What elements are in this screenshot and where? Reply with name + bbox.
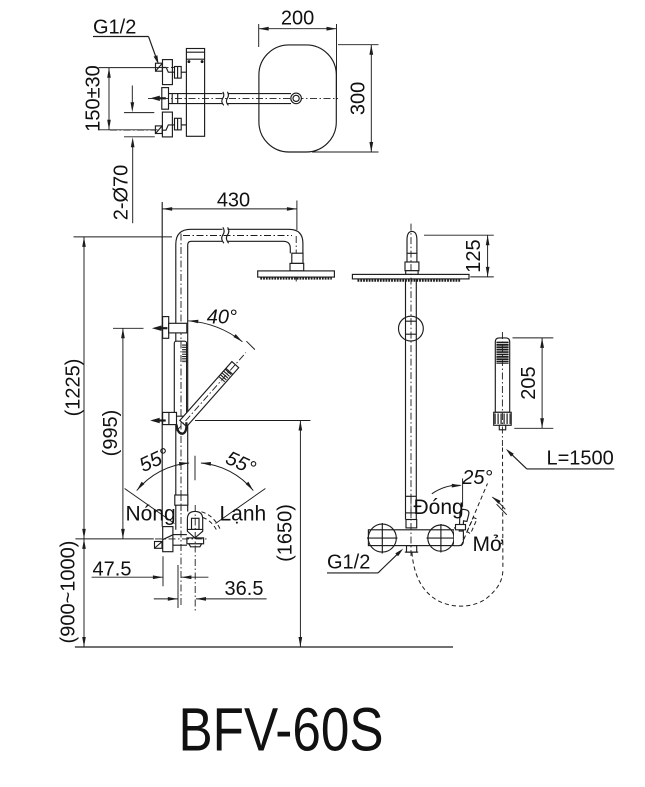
svg-text:L=1500: L=1500 <box>547 448 614 470</box>
label 40 degrees <box>207 307 237 329</box>
centerline overlays <box>181 342 411 557</box>
svg-text:200: 200 <box>281 8 314 30</box>
upper inlet centerline <box>99 67 175 69</box>
wall reference line <box>161 202 163 527</box>
arm centerline with direction arrow <box>148 96 338 101</box>
svg-text:(1650): (1650) <box>275 504 297 562</box>
dimension 1225 <box>63 237 173 539</box>
faucet body front view <box>368 530 454 546</box>
top arm stub front view <box>407 231 417 262</box>
riser column and top arm tube <box>176 229 303 530</box>
svg-text:300: 300 <box>347 82 369 115</box>
svg-text:36.5: 36.5 <box>225 578 264 600</box>
dimension 150±30 <box>83 65 158 132</box>
shower arm flange top view <box>162 88 169 110</box>
right 55 degree arc <box>201 462 266 524</box>
lower inlet centerline <box>110 129 155 131</box>
svg-text:430: 430 <box>217 190 250 212</box>
lower wall union square G1/2 thread <box>155 126 162 134</box>
label 55 degrees left <box>136 444 173 477</box>
title BFV-60S <box>179 696 384 764</box>
pipe nut above faucet <box>175 495 188 505</box>
lever handle closed <box>456 509 469 531</box>
svg-text:Lạnh: Lạnh <box>220 503 267 526</box>
riser pipe front view <box>406 279 417 520</box>
shower hose dashed <box>412 448 503 607</box>
ball joint at arm end <box>291 93 302 104</box>
overhead shower head front view <box>352 274 469 280</box>
overhead shower head top view oval <box>259 45 336 152</box>
label Mo open <box>473 533 504 556</box>
25 degree arrow to open axis <box>492 497 507 515</box>
label G1/2 top view with leader arrow <box>93 17 159 65</box>
hand shower tilted 40 degrees <box>177 353 246 431</box>
wall fixing arrow upper bracket <box>152 326 168 331</box>
valve body top view <box>186 49 204 137</box>
faucet centerline <box>155 538 207 540</box>
svg-text:25°: 25° <box>461 467 492 489</box>
svg-text:(1225): (1225) <box>63 359 85 417</box>
svg-text:G1/2: G1/2 <box>327 552 370 574</box>
pipe nut above faucet body <box>406 520 417 528</box>
lower connection nut <box>172 118 186 130</box>
diverter knob side view <box>187 511 202 529</box>
label Dong close <box>414 496 464 519</box>
slide ring on pipe <box>399 316 424 341</box>
label 25 degrees <box>461 467 492 489</box>
svg-text:BFV-60S: BFV-60S <box>179 696 384 764</box>
hand shower front view <box>494 332 512 446</box>
faucet wall escutcheon side view <box>163 527 187 552</box>
tube break symbol <box>222 227 229 243</box>
column centerline <box>181 234 296 606</box>
diverter V mark <box>187 529 202 538</box>
svg-text:205: 205 <box>518 366 540 399</box>
dimension 430 <box>162 190 297 231</box>
faucet wall square G1/2 <box>155 542 163 549</box>
upper connection nut <box>172 67 186 79</box>
dimension 900-1000 <box>58 539 86 647</box>
dimension 995 <box>100 328 144 539</box>
arm break symbol <box>222 92 229 106</box>
left 55 degree arc <box>125 462 190 524</box>
dimension 47.5 <box>92 559 209 581</box>
label L=1500 <box>506 448 614 470</box>
svg-text:125: 125 <box>463 239 485 272</box>
floor line <box>75 646 453 648</box>
upper eccentric escutcheon <box>163 60 173 85</box>
wall fixing arrow holder <box>150 418 166 423</box>
svg-text:2-Ø70: 2-Ø70 <box>111 165 133 221</box>
right view centerline <box>410 224 412 530</box>
dimension 300 <box>312 45 379 152</box>
dimension 205 <box>513 338 554 428</box>
extension lines bottom dims <box>163 556 178 608</box>
lever handle open dashed <box>461 484 488 547</box>
head connector pieces <box>290 253 304 271</box>
hand shower docked on column <box>174 341 186 416</box>
label G1/2 faucet inlet <box>327 549 403 574</box>
faucet center extension line <box>75 538 153 540</box>
stub base <box>406 271 418 275</box>
adjust range upper tick with down arrow <box>124 86 154 113</box>
left mounting flange <box>367 523 398 554</box>
svg-text:Đóng: Đóng <box>414 496 464 519</box>
svg-text:(900~1000): (900~1000) <box>58 541 80 644</box>
label Lanh cold <box>220 503 267 526</box>
adjust range lower tick with up arrow <box>124 137 155 223</box>
shower arm tube top view <box>169 94 292 104</box>
diverter axis centerline <box>194 505 196 612</box>
label Nong hot <box>126 503 176 526</box>
dimension 1650 <box>195 421 310 648</box>
dimension 125 <box>424 235 494 277</box>
upper wall union square G1/2 thread <box>156 63 163 71</box>
25 degree vertical reference <box>462 478 464 506</box>
upper wall bracket <box>163 317 187 339</box>
25 degree arc left leader <box>432 484 462 494</box>
svg-text:G1/2: G1/2 <box>93 17 136 39</box>
hose outlet nipple <box>405 546 418 552</box>
overhead shower head side view <box>258 271 335 278</box>
svg-text:Nóng: Nóng <box>126 503 176 526</box>
label 2-Ø70 <box>111 165 133 221</box>
dimension 200 <box>259 8 337 101</box>
40 degree arc with arrows <box>188 320 255 350</box>
svg-text:Mở: Mở <box>473 533 504 556</box>
body end cap <box>454 528 463 546</box>
hand shower holder bracket <box>163 412 187 433</box>
diverter knob alternate position dashed <box>202 512 222 532</box>
stub nut <box>405 262 419 271</box>
dimension 36.5 <box>154 578 267 601</box>
svg-text:(995): (995) <box>100 410 122 457</box>
svg-text:150±30: 150±30 <box>83 65 105 132</box>
55 degree reference tick vertical <box>194 456 196 480</box>
lower eccentric escutcheon <box>162 112 172 137</box>
label 55 degrees right <box>222 447 259 480</box>
right mounting flange <box>427 524 456 553</box>
faucet valve body side view <box>187 538 204 547</box>
